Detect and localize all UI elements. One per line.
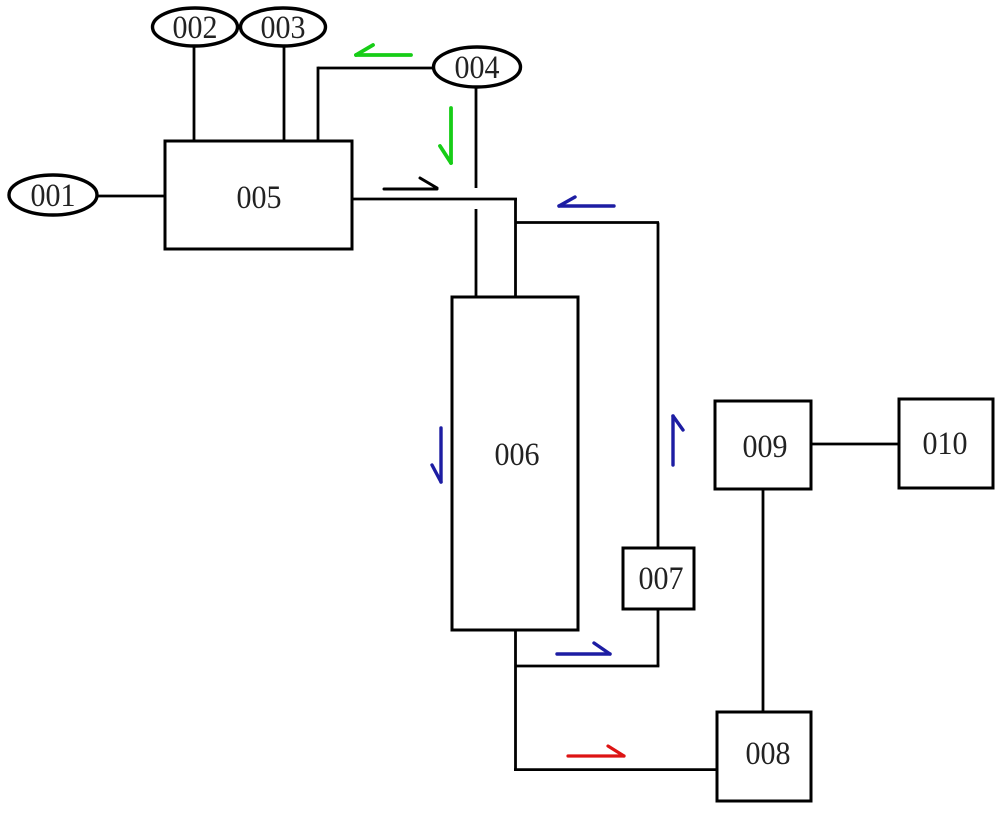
block 005 (rectangle)	[165, 141, 352, 249]
svg-text:009: 009	[743, 429, 788, 465]
block 010 (rectangle)	[899, 399, 993, 488]
block 007 (rectangle)	[623, 548, 694, 609]
wire 005 output drop to 006	[514, 199, 517, 297]
wire branch to 007 (horizontal)	[516, 221, 660, 224]
svg-text:002: 002	[173, 10, 218, 46]
wire 009 to 010	[811, 443, 899, 446]
svg-text:010: 010	[923, 426, 968, 462]
wire 006 bottom drop	[514, 630, 517, 771]
wire 004 to 005 (horizontal run)	[318, 67, 433, 70]
svg-text:006: 006	[495, 437, 540, 473]
block 009 (rectangle)	[715, 401, 811, 489]
wire 006 bottom to 007 loop (horizontal)	[516, 665, 660, 668]
wire 004 down, upper segment (breaks at crossing)	[475, 87, 478, 188]
arrow blue down (left of 006)	[432, 428, 441, 482]
wire 004 to 005 (vertical drop)	[317, 67, 320, 141]
node 003 (ellipse)	[241, 8, 326, 46]
block 006 (rectangle)	[452, 297, 578, 630]
node 001 (ellipse)	[9, 175, 97, 215]
arrow green left (above 004 feed line)	[356, 45, 411, 55]
arrow blue up (on 007 riser)	[673, 416, 683, 465]
svg-text:005: 005	[237, 180, 282, 216]
block 008 (rectangle)	[717, 712, 811, 801]
svg-text:003: 003	[261, 10, 306, 46]
svg-text:004: 004	[455, 50, 500, 86]
wire 003 to 005	[283, 46, 286, 141]
node 004 (ellipse)	[434, 47, 521, 87]
wire 005 right output (horizontal)	[352, 198, 517, 201]
svg-text:001: 001	[31, 178, 76, 214]
arrow black right (on 005 output)	[384, 178, 437, 189]
svg-text:008: 008	[746, 736, 791, 772]
wire branch down to 007	[657, 223, 660, 550]
arrow blue right (bottom of 007 loop)	[557, 643, 610, 654]
arrow red right (run to 008)	[568, 746, 624, 756]
wire 001 to 005	[97, 195, 165, 198]
wire 004 down, lower segment to 006	[475, 209, 478, 297]
wire 002 to 005	[193, 46, 196, 141]
wire 009 to 008	[762, 489, 765, 712]
svg-text:007: 007	[639, 561, 684, 597]
node 002 (ellipse)	[153, 8, 238, 46]
wire bottom run to 008	[514, 768, 717, 771]
arrow blue left (top of 007 loop)	[559, 197, 614, 206]
wire 007 bottom stub	[657, 608, 660, 666]
arrow green down (beside 004 drop)	[440, 108, 451, 163]
